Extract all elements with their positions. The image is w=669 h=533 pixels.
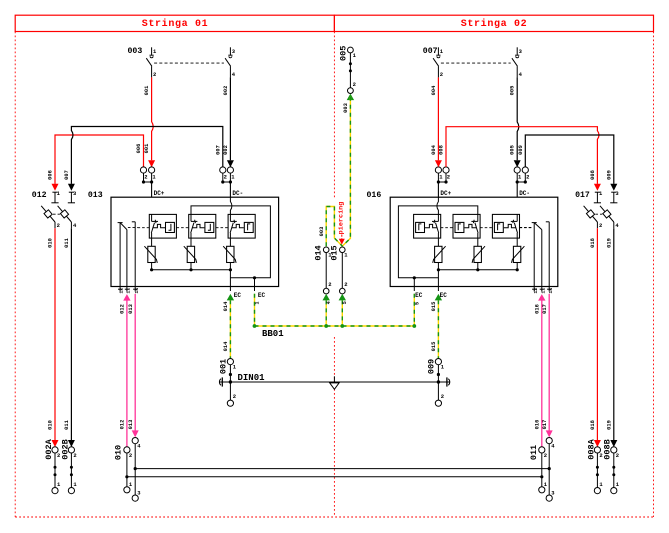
busbar PE symbol [333, 376, 335, 382]
SPD box 016 outline [390, 197, 558, 286]
busbar left end cap [221, 377, 223, 386]
svg-text:003: 003 [319, 227, 325, 237]
wire 002 [229, 77, 231, 160]
terminal pair DC+ of box 016 [435, 167, 441, 173]
svg-text:017: 017 [542, 420, 548, 430]
svg-text:013: 013 [128, 420, 134, 430]
svg-text:2: 2 [73, 452, 76, 459]
svg-text:2: 2 [441, 393, 444, 400]
SPD module 016-3 [492, 214, 519, 238]
svg-text:2: 2 [353, 81, 356, 88]
svg-text:2: 2 [153, 71, 156, 78]
svg-text:Stringa 02: Stringa 02 [461, 18, 528, 30]
box 016 varistor bus [438, 269, 517, 271]
wire 002 arrowhead [227, 160, 234, 167]
svg-text:004: 004 [431, 85, 437, 95]
fuse-disconnector 017 pole 1-2 [595, 191, 600, 193]
signal wire 017 pink (016:14 -> 011:4) [548, 294, 550, 434]
svg-text:14: 14 [134, 288, 140, 294]
SPD module 013-2 [189, 214, 216, 238]
svg-text:009: 009 [606, 170, 612, 180]
earth drop 014 to BB01 [325, 300, 327, 326]
SPD module 013-1 [149, 214, 176, 238]
svg-text:017: 017 [542, 304, 548, 314]
box 016 aux contact [532, 222, 537, 224]
svg-text:007: 007 [423, 47, 438, 56]
svg-text:016: 016 [367, 191, 382, 200]
svg-text:2: 2 [344, 281, 347, 288]
earth wire 015 (box016 EC -> DIN01 009) [435, 294, 442, 301]
svg-text:2: 2 [233, 393, 236, 400]
svg-text:2: 2 [447, 174, 450, 181]
disconnector 003 pole 3-4 [229, 47, 231, 55]
svg-text:017: 017 [575, 191, 590, 200]
fuse-disconnector 012 link [53, 213, 60, 215]
svg-text:5: 5 [342, 301, 348, 304]
wire 010 red (012:2 -> 002A) [54, 228, 56, 443]
wire 004 red (007:2 -> DC+ 1) [437, 77, 439, 160]
svg-text:DC-: DC- [232, 190, 243, 197]
wire 010 arrowhead [52, 440, 59, 447]
svg-text:12: 12 [533, 288, 539, 294]
SPD module 013-3 [228, 214, 255, 238]
svg-text:010: 010 [48, 238, 54, 248]
box 013 varistor bus [152, 269, 231, 271]
varistor 013-1 [148, 246, 155, 262]
svg-text:4: 4 [326, 301, 332, 304]
svg-text:009: 009 [518, 145, 524, 155]
wire 007 with hop over wire 006 [71, 127, 222, 184]
svg-text:14: 14 [548, 288, 554, 294]
svg-text:2: 2 [144, 174, 147, 181]
connector 005 [348, 47, 354, 53]
earth wire branch to 014 [326, 207, 342, 247]
svg-text:004: 004 [431, 144, 437, 154]
disconnector 003 pole 1-2 [151, 47, 153, 55]
fuse-disconnector 017 pole 3-4 [611, 191, 616, 193]
wire 006 arrowhead [52, 184, 59, 191]
svg-text:014: 014 [223, 341, 229, 351]
folio border right dotted [653, 32, 655, 518]
svg-text:011: 011 [64, 420, 70, 430]
terminal pair DC- of box 013 [220, 167, 226, 173]
fuse-disconnector 012 pole 3-4 [69, 191, 74, 193]
fuse-disconnector 012 pole 1-2 [52, 191, 57, 193]
svg-text:EC: EC [440, 292, 448, 299]
svg-text:015: 015 [431, 302, 437, 312]
earth bus BB01 [255, 325, 415, 327]
earth connector 014 arrow [323, 294, 330, 301]
terminal pair DC+ of box 013 [140, 167, 146, 173]
svg-text:010: 010 [113, 445, 123, 460]
svg-text:002: 002 [223, 145, 229, 155]
svg-text:piercing: piercing [338, 202, 346, 235]
svg-text:EC: EC [234, 292, 242, 299]
svg-text:013: 013 [128, 304, 134, 314]
disconnector 007 pole 1-2 [437, 47, 439, 55]
wire 008 arrowhead [594, 184, 601, 191]
svg-text:008: 008 [439, 145, 445, 155]
fuse-disconnector 017 link [595, 213, 602, 215]
svg-text:019: 019 [606, 238, 612, 248]
varistor 016-1 [435, 246, 442, 262]
signal link lower (010:2 - 011:2) [127, 476, 542, 478]
earth connector 015 arrow [339, 294, 346, 301]
svg-text:2: 2 [440, 71, 443, 78]
box 013 aux contact [118, 222, 123, 224]
svg-text:11: 11 [126, 288, 132, 294]
piercing arrow [341, 235, 343, 241]
disconnector 003 mechanical link [154, 62, 224, 64]
svg-text:010: 010 [48, 420, 54, 430]
wire 001 red with crossover hop [152, 77, 154, 160]
svg-text:BB01: BB01 [262, 329, 284, 339]
box 016 module link dashes [520, 227, 532, 229]
wire 001 arrowhead [148, 160, 155, 167]
column divider dotted upper [333, 32, 335, 199]
svg-text:1: 1 [255, 301, 261, 304]
wire 011 black (012:4 -> 002B) [70, 228, 72, 443]
signal wire 013 pink (013:14 -> 010:4) [134, 294, 136, 434]
svg-text:DC+: DC+ [440, 190, 451, 197]
disconnector 007 mechanical link [441, 62, 511, 64]
svg-text:015: 015 [329, 245, 339, 260]
folio border left dotted [14, 32, 16, 518]
box 013 module link dashes [138, 227, 150, 229]
svg-text:016: 016 [535, 304, 541, 314]
header box Stringa 01 [15, 15, 334, 31]
BB01 junctions [253, 324, 257, 328]
earth drop from box016 EC2 to BB01 [413, 294, 415, 326]
svg-text:001: 001 [144, 86, 150, 96]
box 016 inner wire M2 to left [398, 206, 477, 278]
wire 011 arrowhead [68, 440, 75, 447]
svg-text:007: 007 [215, 145, 221, 155]
earth drop 015 to BB01 [341, 300, 343, 326]
wire 009 black (DC- 2 -> 017:3) [525, 135, 614, 184]
svg-text:002: 002 [223, 86, 229, 96]
svg-text:2: 2 [57, 222, 60, 229]
wire 005 black with hop (007:4 -> DC- 1) [517, 77, 519, 160]
svg-text:014: 014 [313, 245, 323, 260]
svg-text:012: 012 [120, 420, 126, 430]
svg-text:011: 011 [529, 445, 539, 460]
svg-text:11: 11 [540, 288, 546, 294]
SPD box 013 outline [111, 197, 279, 286]
earth drop from box013 EC2 to BB01 [254, 294, 256, 326]
folio border bottom dotted [15, 516, 653, 518]
wire 008 red (DC+ 2 -> 017:1) with hop [446, 127, 599, 184]
svg-text:011: 011 [64, 238, 70, 248]
svg-text:003: 003 [343, 103, 349, 113]
busbar right end cap [446, 377, 448, 386]
svg-text:2: 2 [328, 281, 331, 288]
svg-text:005: 005 [339, 46, 349, 61]
svg-text:012: 012 [32, 191, 47, 200]
varistor 016-3 [513, 246, 520, 262]
wire 005 arrowhead [514, 160, 521, 167]
column divider dotted lower [333, 337, 335, 517]
varistor 013-2 [187, 246, 194, 262]
svg-text:018: 018 [590, 238, 596, 248]
svg-text:006: 006 [136, 144, 142, 154]
box 016 DC+ feed hop [437, 197, 439, 214]
svg-text:003: 003 [128, 47, 143, 56]
wire 009 arrowhead [610, 184, 617, 191]
svg-text:009: 009 [426, 359, 436, 374]
svg-text:005: 005 [510, 86, 516, 96]
svg-text:5: 5 [414, 302, 420, 305]
svg-text:012: 012 [120, 304, 126, 314]
svg-text:2: 2 [224, 174, 227, 181]
wire 007 arrowhead [68, 184, 75, 191]
svg-text:013: 013 [88, 191, 103, 200]
wire 019 arrowhead [610, 440, 617, 447]
svg-text:018: 018 [590, 420, 596, 430]
wire 019 black (017:4 -> 008B) [613, 228, 615, 443]
svg-text:014: 014 [223, 301, 229, 311]
svg-text:005: 005 [510, 145, 516, 155]
svg-text:EC: EC [258, 292, 266, 299]
signal link upper (010:4 - 011:4) [135, 468, 549, 470]
box 013 earth junction [229, 270, 231, 291]
header box Stringa 02 [334, 15, 653, 31]
svg-text:2: 2 [599, 222, 602, 229]
svg-text:EC: EC [415, 292, 423, 299]
svg-text:12: 12 [119, 288, 125, 294]
svg-text:DIN01: DIN01 [238, 373, 266, 383]
wire 018 red (017:2 -> 008A) [596, 228, 598, 443]
svg-text:001: 001 [144, 144, 150, 154]
varistor 016-2 [474, 246, 481, 262]
earth arrow below 005 [347, 94, 354, 101]
svg-text:DC-: DC- [519, 190, 530, 197]
terminal pair DC- of box 016 [514, 167, 520, 173]
svg-text:Stringa 01: Stringa 01 [142, 18, 209, 30]
svg-text:007: 007 [64, 170, 70, 180]
busbar DIN01 [220, 381, 450, 383]
svg-text:DC+: DC+ [154, 190, 165, 197]
svg-text:016: 016 [535, 420, 541, 430]
svg-text:2: 2 [129, 452, 132, 459]
disconnector 007 pole 3-4 [516, 47, 518, 55]
svg-text:006: 006 [48, 170, 54, 180]
wire 006 red [55, 135, 144, 184]
earth wire 014 (box013 EC -> DIN01 001) [227, 294, 234, 301]
svg-text:2: 2 [616, 452, 619, 459]
svg-text:019: 019 [606, 420, 612, 430]
svg-text:2: 2 [526, 174, 529, 181]
box 013 inner wire M2 to right [191, 206, 270, 278]
wire 004 arrowhead [435, 160, 442, 167]
svg-text:008: 008 [590, 170, 596, 180]
SPD module 016-2 [453, 214, 480, 238]
box 016 earth junction [437, 270, 439, 291]
svg-text:015: 015 [431, 342, 437, 352]
earth wire 003 from 005 down [342, 97, 350, 246]
varistor 013-3 [227, 246, 234, 262]
signal wire 012 pink (010:2 -> 013:11) [126, 301, 128, 447]
box 013 DC- feed hop [230, 197, 232, 214]
wire 018 arrowhead [594, 440, 601, 447]
SPD module 016-1 [414, 214, 441, 238]
svg-text:2: 2 [544, 452, 547, 459]
signal wire 016 pink (011:2 -> 016:11) [541, 301, 543, 447]
